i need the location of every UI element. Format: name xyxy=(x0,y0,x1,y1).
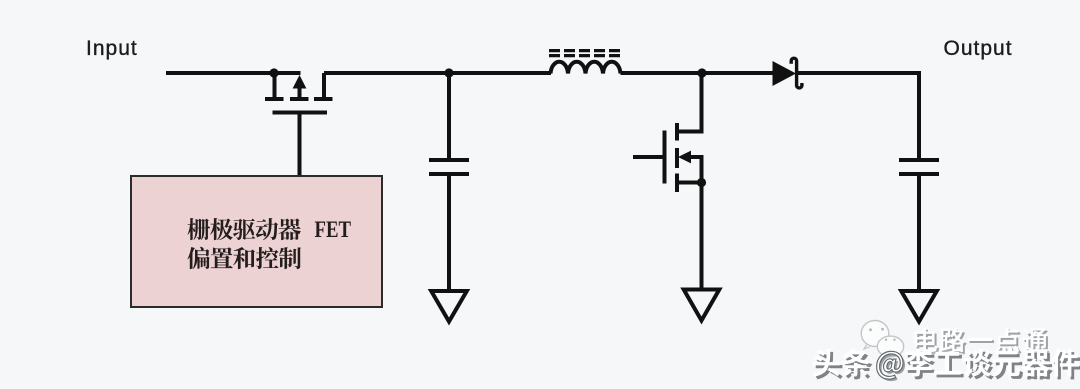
ground C1 xyxy=(431,291,467,322)
wire inductor to diode xyxy=(621,71,774,75)
wire input rail xyxy=(166,71,301,75)
svg-text:Output: Output xyxy=(944,37,1013,60)
ground Q2 xyxy=(684,290,720,321)
box text line1 栅极驱动器 FET xyxy=(188,217,352,243)
node diode junction xyxy=(697,68,706,77)
transistor Q1 P-channel pass FET xyxy=(265,73,333,113)
wire Q1 gate to driver box xyxy=(298,115,302,177)
block gate driver box xyxy=(131,176,382,307)
watermark 电路一点通 xyxy=(915,328,1050,355)
watermark wechat icon xyxy=(861,321,904,357)
wire diode to output corner xyxy=(797,73,919,158)
wire Q1 drain to switch node xyxy=(324,71,551,75)
capacitor C1 input cap xyxy=(429,73,469,292)
ground C2 xyxy=(901,291,937,322)
diode D1 Schottky anode triangle xyxy=(773,61,797,86)
inductor L1 core dashes xyxy=(549,51,620,56)
diode D1 Schottky cathode bar xyxy=(791,58,802,88)
watermark 头条@李工谈元器件 xyxy=(813,349,1080,381)
transistor Q2 N-channel sync FET xyxy=(633,73,702,192)
capacitor C2 output cap xyxy=(899,160,939,174)
node switch node junction xyxy=(444,68,453,77)
wire Q2 source to ground xyxy=(700,183,704,291)
wire C2 to ground xyxy=(917,176,921,292)
svg-text:Input: Input xyxy=(86,37,138,60)
node input junction xyxy=(269,68,278,77)
svg-text:FET: FET xyxy=(315,217,352,243)
box text line2 偏置和控制 xyxy=(187,247,301,269)
node Q2 source junction xyxy=(697,178,706,187)
inductor L1 coil xyxy=(551,62,621,74)
